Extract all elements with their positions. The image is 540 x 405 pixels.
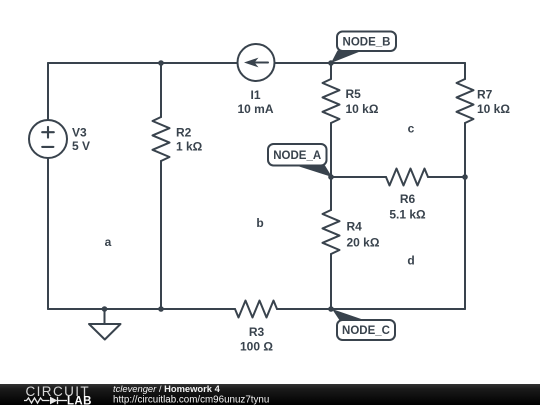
svg-text:20 kΩ: 20 kΩ xyxy=(347,235,380,249)
resistor R6 xyxy=(386,169,428,186)
voltage source V3 circle xyxy=(29,120,67,158)
svg-text:R6: R6 xyxy=(400,192,416,206)
wire top-left horizontal xyxy=(48,62,238,64)
footer bar xyxy=(0,384,540,405)
svg-text:d: d xyxy=(407,254,414,268)
current source I1 circle xyxy=(238,44,275,81)
svg-text:a: a xyxy=(105,235,112,249)
svg-text:http://circuitlab.com/cm96unuz: http://circuitlab.com/cm96unuz7tynu xyxy=(113,394,269,405)
wire left vertical upper xyxy=(47,63,49,120)
svg-text:c: c xyxy=(408,122,415,136)
wire R4 to node C xyxy=(330,254,332,309)
footer logo wire-resistor-diode xyxy=(24,397,67,404)
wire R5 to node A xyxy=(330,123,332,177)
resistor R5 xyxy=(323,79,340,123)
node NODE_C callout box xyxy=(337,320,395,340)
svg-text:10 kΩ: 10 kΩ xyxy=(346,102,379,116)
wire node A to R4 xyxy=(330,177,332,210)
wire right vertical lower xyxy=(464,123,466,309)
resistor R2 xyxy=(153,117,170,161)
svg-text:R4: R4 xyxy=(347,220,363,234)
svg-text:LAB: LAB xyxy=(67,395,92,405)
svg-text:R2: R2 xyxy=(176,126,192,140)
node NODE_B callout box xyxy=(337,32,396,52)
svg-text:I1: I1 xyxy=(250,88,260,102)
wire node B to R5 xyxy=(330,63,332,79)
junction dot node A xyxy=(328,174,334,180)
V3 minus sign xyxy=(42,146,53,148)
svg-text:NODE_C: NODE_C xyxy=(342,325,390,337)
svg-text:5.1 kΩ: 5.1 kΩ xyxy=(389,208,426,222)
ground triangle xyxy=(89,324,121,340)
wire node A to R6 xyxy=(331,176,386,178)
wire R6 to right rail xyxy=(428,176,465,178)
svg-text:R5: R5 xyxy=(346,87,362,101)
svg-text:10 mA: 10 mA xyxy=(237,102,273,116)
resistor R3 xyxy=(235,301,277,318)
footer logo diode triangle xyxy=(50,397,58,405)
svg-text:tclevenger / Homework 4: tclevenger / Homework 4 xyxy=(113,383,221,394)
node NODE_C callout tail xyxy=(332,309,367,321)
junction dot R2 top xyxy=(158,60,164,66)
junction dot node B xyxy=(328,60,334,66)
junction dot R2 bottom xyxy=(158,306,164,312)
V3 plus sign xyxy=(42,127,54,138)
svg-text:R3: R3 xyxy=(249,325,265,339)
resistor R7 xyxy=(457,79,474,123)
node NODE_A callout tail xyxy=(296,166,332,178)
junction dot node C xyxy=(328,306,334,312)
svg-text:5 V: 5 V xyxy=(72,139,90,153)
svg-text:NODE_A: NODE_A xyxy=(273,150,321,162)
junction dot R6 right xyxy=(462,174,468,180)
wire left vertical lower xyxy=(47,158,49,309)
svg-text:V3: V3 xyxy=(72,126,87,140)
svg-text:1 kΩ: 1 kΩ xyxy=(176,139,203,153)
current source I1 arrow shaft xyxy=(250,62,268,64)
current source I1 arrowhead xyxy=(244,58,259,68)
wire R2 branch lower xyxy=(160,161,162,309)
wire bottom right xyxy=(277,308,465,310)
wire bottom left xyxy=(48,308,235,310)
node NODE_A callout box xyxy=(268,144,327,166)
ground stem xyxy=(104,309,106,324)
svg-text:100 Ω: 100 Ω xyxy=(240,340,273,354)
wire R2 branch upper xyxy=(160,63,162,117)
wire right vertical upper xyxy=(464,63,466,79)
node NODE_B callout tail xyxy=(331,51,363,64)
svg-text:b: b xyxy=(256,216,263,230)
svg-text:10 kΩ: 10 kΩ xyxy=(477,102,510,116)
svg-text:R7: R7 xyxy=(477,88,493,102)
svg-text:NODE_B: NODE_B xyxy=(343,36,391,48)
wire top-right horizontal xyxy=(275,62,466,64)
junction dot ground xyxy=(102,306,108,312)
resistor R4 xyxy=(323,210,340,254)
